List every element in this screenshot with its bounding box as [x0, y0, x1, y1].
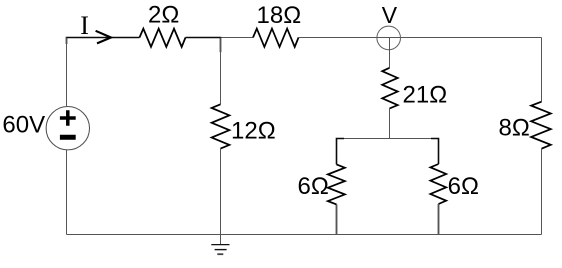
wire black lead 2ohm right to junction	[186, 38, 221, 53]
source V1 60V circle	[46, 107, 89, 150]
svg-text:12Ω: 12Ω	[231, 117, 276, 144]
resistor R 21ohm	[382, 68, 398, 109]
ground stem	[220, 235, 222, 245]
resistor R 6ohm left	[328, 164, 345, 204]
wire black lead left 6ohm bottom	[336, 204, 338, 234]
wire black lead right 6ohm branch	[431, 139, 439, 165]
wire left vertical bottom	[66, 150, 68, 235]
svg-text:6Ω: 6Ω	[448, 173, 479, 200]
resistor R 12ohm	[212, 104, 230, 148]
source minus sign	[60, 135, 76, 140]
wire from 18ohm to right corner	[299, 37, 542, 39]
wire black lead left 6ohm branch	[337, 139, 345, 165]
wire black lead right 6ohm bottom	[438, 204, 440, 234]
svg-text:18Ω: 18Ω	[257, 2, 302, 29]
resistor R 18ohm	[253, 29, 299, 47]
resistor R 2ohm	[140, 29, 186, 47]
node V circle	[377, 26, 401, 50]
svg-text:21Ω: 21Ω	[403, 81, 448, 108]
wire branch 12ohm bottom	[220, 149, 222, 235]
wire right 6ohm branch top	[438, 139, 440, 165]
wire between 2ohm and 18ohm	[186, 37, 254, 39]
wire bottom	[67, 234, 542, 236]
wire top from left corner to 2ohm	[67, 37, 140, 39]
wire left vertical top	[66, 38, 68, 107]
wire right vertical top	[541, 38, 543, 102]
wire left 6ohm branch top	[336, 139, 338, 165]
wire 21ohm branch top	[389, 38, 391, 68]
svg-text:2Ω: 2Ω	[148, 2, 179, 29]
wire middle horizontal	[337, 138, 439, 140]
wire right 6ohm branch bottom	[438, 204, 440, 235]
svg-text:60V: 60V	[2, 112, 45, 139]
wire branch 12ohm top	[220, 38, 222, 105]
wire 21ohm branch bottom	[389, 109, 391, 139]
current arrow	[96, 31, 111, 44]
source plus sign	[60, 110, 76, 126]
ground bars	[211, 244, 229, 246]
resistor R 8ohm	[531, 102, 551, 149]
resistor R 6ohm right	[430, 164, 446, 204]
svg-text:8Ω: 8Ω	[499, 115, 530, 142]
svg-text:I: I	[80, 11, 89, 40]
wire right vertical bottom	[541, 149, 543, 235]
wire left 6ohm branch bottom	[336, 204, 338, 234]
svg-text:6Ω: 6Ω	[298, 173, 329, 200]
svg-text:V: V	[382, 2, 398, 28]
wire black lead run corner to junction (2ohm element leads)	[67, 38, 140, 45]
